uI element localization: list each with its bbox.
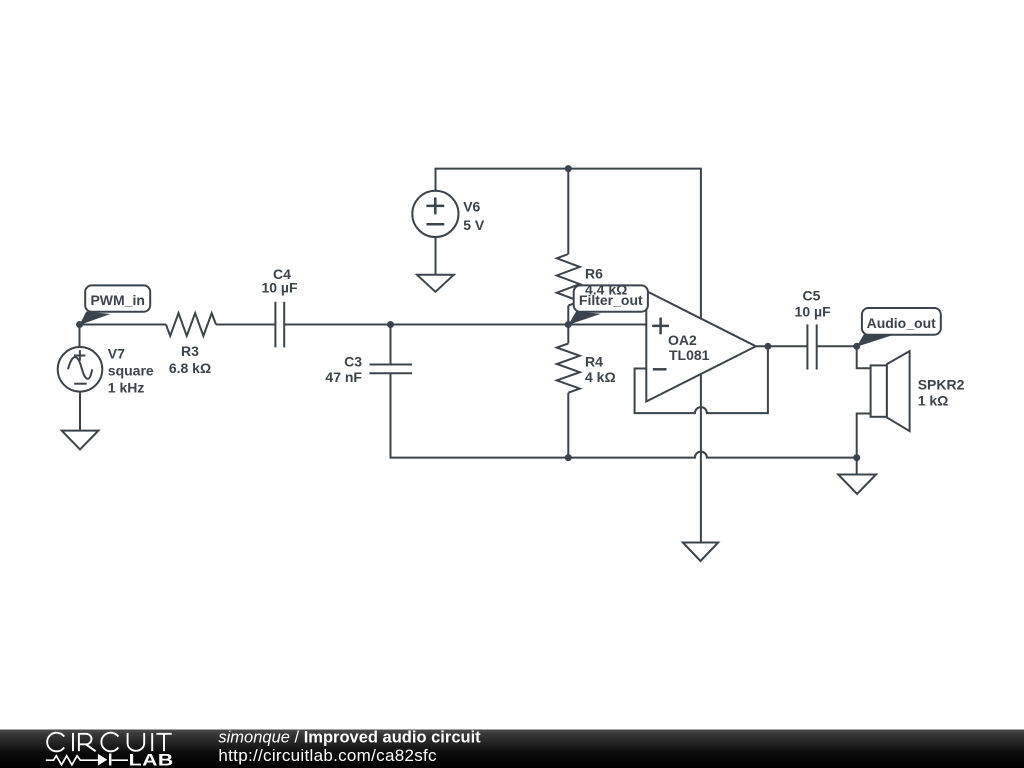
wire C3 to bottom rail <box>391 373 569 457</box>
footer bar <box>0 730 1024 768</box>
ground (op-amp supply) <box>683 543 718 562</box>
ground (V6) <box>417 275 454 292</box>
wire R6 to node B <box>567 306 569 325</box>
wire R3 to C4 <box>216 324 275 326</box>
feedback wire with hop <box>635 346 768 413</box>
svg-text:V6: V6 <box>463 199 480 215</box>
net flag PWM_in <box>80 285 151 325</box>
svg-text:R6: R6 <box>585 266 603 282</box>
voltage source V7 lead <box>79 325 81 348</box>
wire node B to op-amp plus input <box>568 324 646 326</box>
svg-text:Audio_out: Audio_out <box>867 315 937 331</box>
svg-text:4 kΩ: 4 kΩ <box>585 369 616 385</box>
op-amp OA2 body <box>646 291 756 402</box>
resistor R4 lead <box>567 325 569 344</box>
resistor R4 <box>557 344 580 393</box>
resistor R6 <box>557 254 580 306</box>
svg-text:10 µF: 10 µF <box>261 280 298 296</box>
voltage source V6 <box>412 191 458 237</box>
net flag Filter_out <box>568 285 648 325</box>
svg-text:PWM_in: PWM_in <box>90 292 144 308</box>
svg-text:C3: C3 <box>344 354 362 370</box>
node dot bottom rail <box>565 454 572 461</box>
ground (V7) <box>62 431 99 450</box>
node dot Audio_out <box>853 343 860 350</box>
svg-text:square: square <box>108 363 154 379</box>
wire node A to node B <box>391 324 569 326</box>
op-amp negative supply wire to ground <box>700 374 702 543</box>
svg-text:47 nF: 47 nF <box>325 369 362 385</box>
svg-text:5 V: 5 V <box>463 217 485 233</box>
svg-text:simonque / Improved audio circ: simonque / Improved audio circuit <box>218 729 481 747</box>
svg-text:http://circuitlab.com/ca82sfc: http://circuitlab.com/ca82sfc <box>218 746 437 765</box>
wire speaker to ground node <box>857 414 871 458</box>
capacitor C3 <box>370 364 413 366</box>
node dot PWM_in <box>76 321 83 328</box>
node B dot <box>565 321 572 328</box>
svg-text:V7: V7 <box>108 346 125 362</box>
svg-text:10 µF: 10 µF <box>795 304 832 320</box>
svg-text:R4: R4 <box>585 354 603 370</box>
top rail wire <box>436 169 701 319</box>
node dot speaker ground <box>853 454 860 461</box>
wire R4 to bottom rail <box>567 393 569 458</box>
svg-text:4.4 kΩ: 4.4 kΩ <box>585 282 627 298</box>
wire C5 to Audio_out node <box>817 345 857 347</box>
svg-text:C5: C5 <box>803 288 821 304</box>
svg-text:TL081: TL081 <box>669 347 710 363</box>
node dot op-amp output <box>764 343 771 350</box>
wire op-amp output to C5 <box>756 345 808 347</box>
wire C4 to node A <box>284 324 390 326</box>
voltage source V7 <box>58 347 103 392</box>
wire bottom rail with hop over supply wire <box>568 452 856 458</box>
capacitor C4 <box>274 302 276 348</box>
svg-text:R3: R3 <box>181 343 199 359</box>
svg-text:OA2: OA2 <box>668 332 697 348</box>
node A dot <box>387 321 394 328</box>
CircuitLab logo wordmark <box>47 733 172 752</box>
wire speaker ground stem <box>856 458 858 475</box>
wire V6 to ground <box>435 237 437 275</box>
node dot top rail <box>565 165 572 172</box>
svg-text:6.8 kΩ: 6.8 kΩ <box>169 360 211 376</box>
wire node A down to C3 <box>390 325 392 365</box>
svg-text:LAB: LAB <box>129 751 174 768</box>
capacitor C5 <box>806 324 808 369</box>
speaker SPKR2 <box>871 365 887 416</box>
svg-text:SPKR2: SPKR2 <box>918 377 965 393</box>
wire main net PWM_in to R3 <box>80 324 167 326</box>
svg-text:1 kΩ: 1 kΩ <box>918 392 949 408</box>
resistor R6 lead from rail <box>567 169 569 254</box>
ground (speaker) <box>838 475 876 495</box>
svg-text:1 kHz: 1 kHz <box>108 380 145 396</box>
wire Audio_out node to speaker <box>857 346 871 368</box>
wire V7 to ground <box>79 392 81 431</box>
resistor R3 <box>166 313 216 336</box>
net flag Audio_out <box>857 308 941 347</box>
CircuitLab logo resistor-diode glyph <box>46 756 128 765</box>
